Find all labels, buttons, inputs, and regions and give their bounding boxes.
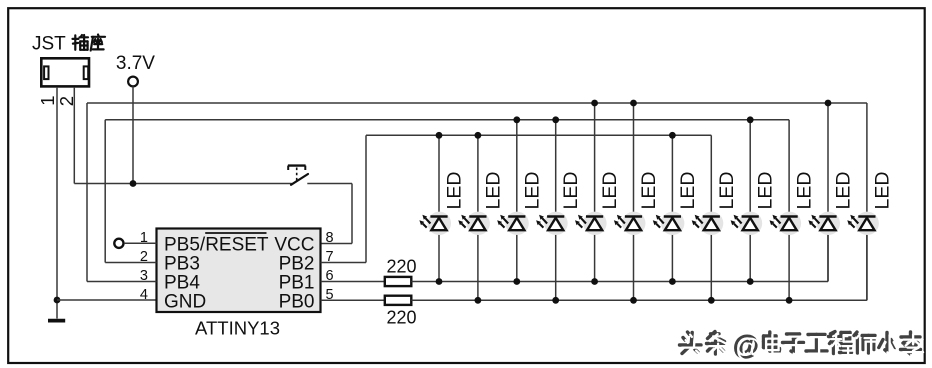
svg-text:LED: LED	[521, 172, 543, 210]
svg-text:PB5/RESET: PB5/RESET	[164, 235, 269, 256]
svg-text:3.7V: 3.7V	[116, 53, 155, 74]
junction LED3 top	[513, 116, 520, 123]
svg-text:LED: LED	[794, 172, 816, 210]
svg-text:GND: GND	[164, 292, 206, 313]
wire rail A corner up	[827, 230, 829, 281]
wire PB4 to pin3	[87, 281, 157, 283]
LED D9	[739, 212, 762, 235]
LED D12	[856, 212, 879, 235]
svg-text:LED: LED	[482, 172, 504, 210]
wire LED4 anode riser	[555, 120, 557, 216]
wire LED5 cathode drop	[594, 230, 596, 281]
svg-text:LED: LED	[871, 172, 893, 210]
wire PB3 rail top	[105, 119, 789, 121]
wire LED2 anode riser	[477, 135, 479, 215]
wire LED10 anode riser	[788, 120, 790, 216]
wire VCC to pin8	[321, 243, 353, 245]
wire R1 to rail A	[411, 281, 828, 283]
svg-text:LED: LED	[599, 172, 621, 210]
junction LED7 top	[669, 132, 676, 139]
LED D6	[622, 212, 645, 235]
junction LED8 bottom	[708, 297, 715, 304]
junction 3.7V net	[130, 180, 137, 187]
LED D4	[544, 212, 567, 235]
svg-text:PB0: PB0	[279, 292, 315, 313]
junction LED5 top	[591, 100, 598, 107]
wire switch to VCC corner	[307, 183, 352, 185]
svg-text:ATTINY13: ATTINY13	[195, 318, 280, 339]
junction GND	[54, 297, 61, 304]
wire LED6 anode riser	[633, 103, 635, 216]
wire GND rail to IC pin4	[57, 299, 157, 301]
svg-text:PB4: PB4	[164, 273, 200, 294]
junction LED4 top	[552, 116, 559, 123]
LED D7	[661, 212, 684, 235]
wire LED8 cathode drop	[710, 230, 712, 300]
reset terminal circle	[114, 239, 123, 248]
junction LED2 bottom	[475, 297, 482, 304]
wire LED8 anode riser	[710, 135, 712, 215]
junction LED4 bottom	[552, 297, 559, 304]
wire PB2 rail top	[366, 134, 711, 136]
wire 3.7V terminal drop	[132, 86, 134, 183]
wire LED11 cathode drop	[827, 230, 829, 281]
junction LED3 bottom	[513, 278, 520, 285]
LED D5	[583, 212, 606, 235]
wire PB3 to pin2	[105, 262, 156, 264]
switch S1 actuator	[288, 164, 306, 166]
svg-text:LED: LED	[833, 172, 855, 210]
wire LED2 cathode drop	[477, 230, 479, 300]
LED D8	[700, 212, 723, 235]
resistor R1	[385, 277, 412, 286]
wire PB3 vertical	[104, 120, 106, 263]
wire JST pin1 to GND rail	[56, 88, 58, 300]
svg-text:LED: LED	[677, 172, 699, 210]
junction LED11 top	[825, 100, 832, 107]
LED D10	[778, 212, 801, 235]
svg-text:LED: LED	[638, 172, 660, 210]
junction LED6 bottom	[630, 297, 637, 304]
wire LED1 anode riser	[438, 135, 440, 215]
IC U1 ATTINY13 body	[157, 229, 321, 313]
svg-text:1: 1	[37, 96, 58, 106]
wire LED3 anode riser	[516, 120, 518, 216]
junction LED9 bottom	[747, 278, 754, 285]
junction LED1 bottom	[436, 278, 443, 285]
wire PB2 riser	[365, 135, 367, 262]
wire VCC vertical	[351, 184, 353, 244]
wire LED12 anode riser	[866, 103, 868, 216]
switch S1 dashed link	[296, 168, 298, 181]
svg-text:220: 220	[387, 257, 417, 277]
wire LED9 anode riser	[749, 120, 751, 216]
wire PB2 to riser	[321, 262, 367, 264]
junction LED5 bottom	[591, 278, 598, 285]
junction LED9 top	[747, 116, 754, 123]
wire LED11 anode riser	[827, 103, 829, 216]
svg-text:PB2: PB2	[279, 254, 315, 275]
wire LED7 cathode drop	[671, 230, 673, 281]
junction LED10 bottom	[786, 297, 793, 304]
wire LED9 cathode drop	[749, 230, 751, 281]
svg-text:1: 1	[140, 230, 148, 246]
wire LED12 cathode drop	[866, 230, 868, 300]
svg-text:PB1: PB1	[279, 273, 315, 294]
wire LED5 anode riser	[594, 103, 596, 216]
svg-text:220: 220	[387, 308, 417, 328]
LED D1	[428, 212, 451, 235]
connector J1 body	[41, 58, 89, 86]
watermark 头条 @电子工程师小李	[680, 330, 924, 363]
wire R2 to rail B	[411, 299, 867, 301]
svg-text:@: @	[736, 332, 762, 362]
junction LED1 top	[436, 132, 443, 139]
svg-text:LED: LED	[755, 172, 777, 210]
svg-text:VCC: VCC	[274, 235, 314, 256]
pin 1 stub	[125, 242, 157, 244]
wire LED7 anode riser	[671, 135, 673, 215]
svg-text:4: 4	[140, 287, 148, 303]
wire PB4 vertical	[86, 103, 88, 282]
LED D2	[467, 212, 490, 235]
wire GND drop	[56, 300, 58, 319]
wire LED3 cathode drop	[516, 230, 518, 281]
svg-text:8: 8	[326, 230, 334, 246]
wire rail B corner up	[866, 230, 868, 300]
wire LED6 cathode drop	[633, 230, 635, 300]
LED D3	[505, 212, 528, 235]
svg-text:LED: LED	[444, 172, 466, 210]
wire 3.7V net horizontal	[74, 183, 291, 185]
svg-text:LED: LED	[560, 172, 582, 210]
junction LED2 top	[475, 132, 482, 139]
wire JST pin2 down	[73, 88, 75, 184]
svg-text:JST: JST	[32, 34, 66, 55]
wire PB4 rail top	[87, 102, 867, 104]
LED D11	[817, 212, 840, 235]
wire LED10 cathode drop	[788, 230, 790, 300]
svg-text:PB3: PB3	[164, 254, 200, 275]
resistor R2	[385, 296, 412, 305]
junction LED6 top	[630, 100, 637, 107]
wire pin5 to R2	[321, 299, 385, 301]
switch S1 contacts/lever	[291, 174, 308, 185]
wire LED4 cathode drop	[555, 230, 557, 300]
junction LED7 bottom	[669, 278, 676, 285]
wire pin6 to R1	[321, 281, 385, 283]
ground	[48, 319, 65, 323]
wire LED1 cathode drop	[438, 230, 440, 281]
svg-text:LED: LED	[716, 172, 738, 210]
supply terminal 3.7V	[128, 77, 138, 87]
